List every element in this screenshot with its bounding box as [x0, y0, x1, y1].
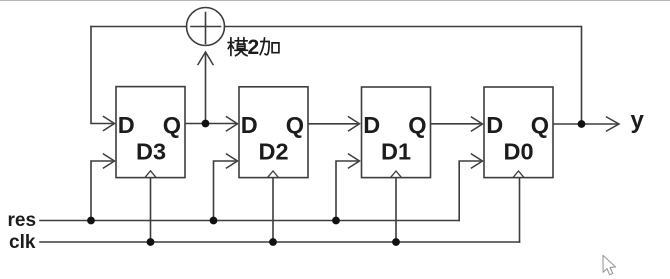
svg-text:2: 2 — [248, 36, 260, 59]
svg-text:D0: D0 — [503, 139, 533, 165]
svg-text:Q: Q — [408, 112, 426, 138]
svg-text:D: D — [363, 112, 380, 138]
svg-text:D: D — [241, 112, 258, 138]
svg-text:D: D — [118, 112, 135, 138]
svg-text:D2: D2 — [258, 139, 288, 165]
svg-text:D1: D1 — [381, 139, 411, 165]
svg-text:D: D — [486, 112, 503, 138]
svg-text:y: y — [631, 107, 645, 134]
svg-text:clk: clk — [9, 232, 36, 253]
svg-text:res: res — [8, 210, 37, 231]
svg-text:Q: Q — [163, 112, 181, 138]
svg-text:Q: Q — [531, 112, 549, 138]
svg-text:D3: D3 — [136, 139, 166, 165]
svg-text:Q: Q — [286, 112, 304, 138]
